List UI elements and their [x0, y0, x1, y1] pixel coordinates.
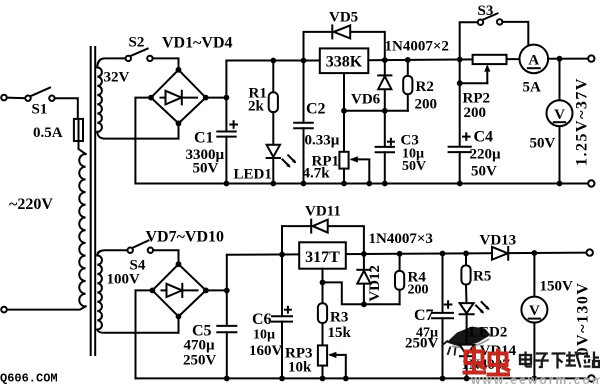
svg-text:VD12: VD12 [367, 265, 383, 302]
minus rail2 junctions [224, 376, 537, 382]
diode VD14 [460, 345, 475, 379]
wire winding32V top to S2 [97, 58, 125, 67]
diode VD6 [378, 57, 391, 111]
watermark chongchong char1 [463, 347, 487, 373]
watermark char xia [552, 354, 566, 369]
svg-text:C7: C7 [414, 307, 434, 324]
svg-text:100V: 100V [107, 272, 141, 288]
voltmeter V1 [547, 100, 573, 126]
rheostat RP2 [457, 55, 507, 86]
svg-text:0.33µ: 0.33µ [305, 133, 340, 149]
LED1 emission arrows [283, 155, 297, 167]
svg-text:220µ: 220µ [470, 147, 502, 163]
svg-text:10µ: 10µ [253, 328, 275, 343]
plus rail after ammeter [548, 58, 588, 60]
svg-text:R5: R5 [473, 269, 491, 285]
svg-text:50V: 50V [402, 159, 426, 174]
svg-text:V: V [554, 107, 565, 123]
switch S3 [478, 13, 503, 25]
resistor R2 [403, 57, 412, 111]
svg-text:R3: R3 [330, 310, 348, 326]
svg-text:LED1: LED1 [234, 167, 272, 183]
watermark chongchong char2 [487, 349, 511, 375]
svg-text:C4: C4 [474, 129, 494, 146]
regulator U1 338K [320, 48, 369, 73]
svg-text:C2: C2 [306, 101, 326, 118]
svg-text:50V: 50V [471, 164, 497, 180]
svg-text:250V: 250V [405, 336, 439, 352]
RP1 wiper [350, 156, 370, 183]
ammeter PA [520, 45, 549, 74]
capacitor C7 [432, 251, 453, 379]
svg-text:S1: S1 [32, 102, 48, 118]
resistor R5 [461, 251, 470, 304]
wire bridge2 right vertex to node B [206, 289, 227, 291]
wire ADJ net [344, 108, 408, 114]
wire fuse to primary winding [79, 141, 86, 154]
svg-text:10k: 10k [288, 360, 312, 376]
input terminal T2 [1, 307, 7, 313]
svg-text:A: A [528, 53, 539, 69]
svg-text:1N4007×3: 1N4007×3 [369, 231, 433, 247]
node V2 top junction [532, 250, 538, 256]
svg-text:470µ: 470µ [184, 338, 216, 354]
minus rail junctions [224, 181, 563, 187]
capacitor C2 [294, 58, 313, 184]
potentiometer RP3 [318, 345, 327, 378]
svg-text:0.5A: 0.5A [33, 125, 63, 141]
wire ADJ2 net [323, 282, 400, 307]
watermark ant logo [443, 327, 491, 356]
wire S3 to ammeter [502, 22, 528, 45]
svg-text:Q606.COM: Q606.COM [0, 372, 58, 385]
capacitor C4 [449, 57, 471, 184]
svg-text:LED2: LED2 [469, 325, 507, 341]
switch S2 [126, 49, 153, 62]
svg-text:4.7k: 4.7k [303, 166, 331, 182]
wire winding32V bottom to bridge bottom [97, 123, 178, 138]
bridge2 inner diode [162, 284, 198, 297]
wire bridge1 left vertex to minus rail [135, 98, 151, 184]
resistor R1 [269, 58, 278, 145]
svg-text:VD6: VD6 [351, 92, 381, 108]
wire T1 to S1 [7, 97, 26, 100]
svg-text:VD13: VD13 [480, 233, 517, 249]
regulator U2 317T [299, 242, 346, 268]
svg-text:200: 200 [464, 105, 487, 121]
watermark char zai [566, 352, 582, 368]
LED2 [460, 303, 474, 345]
wire node B riser to plus rail2 [226, 255, 228, 291]
minus rail [135, 183, 588, 185]
capacitor C3 [376, 111, 394, 184]
wire winding100V bottom to bridge2 bottom [97, 317, 178, 333]
watermark char dian [520, 352, 532, 367]
wire primary to T2 [7, 306, 86, 309]
plus rail right segment [368, 59, 519, 60]
output terminal minus [588, 180, 594, 186]
wire 317T ADJ pin [322, 269, 324, 283]
wire bridge2 left vertex to minus rail2 [136, 290, 153, 378]
LED2 emission arrows [476, 302, 490, 314]
svg-text:317T: 317T [305, 249, 340, 266]
wire S4 to bridge2 top [153, 250, 178, 264]
svg-text:50V: 50V [530, 136, 556, 152]
minus rail2 [136, 377, 589, 379]
svg-text:~220V: ~220V [9, 196, 53, 213]
svg-text:200: 200 [408, 283, 429, 298]
svg-text:1.25V~37V: 1.25V~37V [574, 77, 591, 166]
diode VD13 [492, 247, 508, 260]
svg-text:www.eeworm.com: www.eeworm.com [470, 373, 600, 385]
wire to voltmeter V2 [533, 253, 535, 297]
wire 338K ADJ pin [343, 73, 345, 111]
switch S4 [128, 241, 154, 253]
C6 polarity plus [285, 307, 291, 313]
bridge rectifier VD1~VD4 diamond [151, 70, 206, 124]
svg-text:V: V [529, 303, 540, 319]
svg-text:150V: 150V [540, 279, 574, 295]
svg-text:R2: R2 [416, 79, 434, 95]
wire node A riser to plus rail [225, 61, 227, 98]
plus rail2 left segment [227, 253, 299, 255]
wire winding100V top to S4 [97, 250, 127, 255]
svg-text:C1: C1 [194, 130, 214, 147]
diode VD11 bypass loop [282, 220, 364, 255]
bridge rectifier VD7~VD10 diamond [152, 264, 206, 316]
node B junction [224, 288, 230, 294]
node ADJ2 junction [320, 280, 326, 286]
svg-text:15k: 15k [328, 325, 352, 341]
svg-text:VD5: VD5 [329, 10, 358, 26]
wire V1 to minus rail [559, 126, 561, 183]
potentiometer RP1 [339, 111, 348, 184]
transformer secondary winding 32V [97, 68, 102, 132]
svg-text:250V: 250V [183, 353, 217, 369]
C4 polarity plus [463, 133, 470, 140]
node A junction [224, 95, 230, 101]
svg-text:C6: C6 [252, 311, 272, 328]
wire S1 to fuse [55, 98, 78, 119]
plus rail left segment [226, 60, 319, 62]
svg-text:VD7~VD10: VD7~VD10 [146, 229, 225, 246]
svg-text:5A: 5A [523, 80, 542, 96]
diode VD5 bypass loop [304, 25, 385, 60]
svg-text:32V: 32V [104, 70, 130, 86]
svg-text:0V~130V: 0V~130V [575, 282, 592, 356]
transformer T primary winding [79, 154, 85, 306]
wire V2 to minus rail2 [533, 323, 535, 379]
resistor R4 [395, 251, 404, 304]
switch S1 [25, 88, 54, 101]
switch S3 branch wire [460, 22, 478, 59]
transformer secondary winding 100V [97, 256, 102, 330]
svg-text:200: 200 [415, 97, 438, 113]
bridge1 inner diode [161, 91, 198, 105]
capacitor C1 [217, 98, 235, 184]
bridge2 vertex junctions [150, 261, 209, 319]
svg-text:50V: 50V [193, 161, 219, 177]
svg-text:160V: 160V [249, 343, 283, 359]
input terminal T1 [1, 95, 7, 101]
C3 polarity plus [388, 139, 394, 145]
C7 polarity plus [445, 301, 452, 308]
fuse FU 0.5A [74, 119, 83, 141]
svg-text:1N4007×2: 1N4007×2 [385, 39, 449, 55]
watermark char zi [535, 354, 549, 368]
resistor R3 [318, 282, 327, 345]
output terminal plus [588, 55, 594, 61]
svg-text:S3: S3 [478, 3, 494, 19]
svg-text:S2: S2 [129, 35, 145, 51]
wire bridge1 right vertex to node A [206, 97, 227, 99]
RP3 wiper [328, 352, 346, 379]
LED1 [267, 145, 280, 184]
node V1 top junction [557, 56, 563, 62]
wire to voltmeter V1 [559, 59, 561, 101]
plus rail2 right segment [346, 253, 589, 255]
output terminal2 minus [588, 375, 594, 381]
svg-text:VD11: VD11 [305, 204, 341, 220]
diode VD12 [357, 251, 370, 304]
svg-text:338K: 338K [326, 53, 363, 70]
output terminal2 plus [587, 249, 593, 255]
svg-text:VD1~VD4: VD1~VD4 [162, 35, 233, 52]
capacitor C6 [272, 252, 292, 379]
capacitor C5 [217, 290, 236, 378]
C1 polarity plus [230, 121, 237, 128]
bridge1 vertex junctions [148, 67, 209, 126]
wire S2 to bridge top [153, 58, 179, 69]
watermark char zhan [584, 352, 600, 368]
svg-text:2k: 2k [248, 99, 265, 115]
voltmeter V2 [521, 297, 547, 323]
node ADJ junction [341, 108, 347, 114]
transformer core [91, 47, 96, 355]
